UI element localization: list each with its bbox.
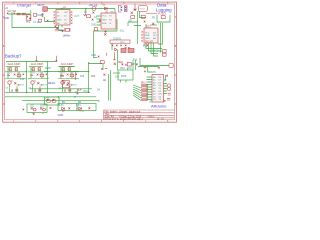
- svg-text:Charger: Charger: [17, 3, 32, 8]
- svg-text:GND: GND: [91, 55, 96, 57]
- svg-text:GND: GND: [37, 15, 42, 17]
- svg-text:o o o: o o o: [140, 9, 146, 11]
- svg-text:Rev:: Rev:: [150, 116, 155, 119]
- svg-text:NiMH: NiMH: [45, 68, 51, 70]
- svg-text:3V3: 3V3: [115, 76, 120, 78]
- svg-text:R20: R20: [91, 76, 96, 78]
- svg-text:16MHz: 16MHz: [63, 34, 72, 37]
- svg-text:SW1: SW1: [120, 68, 126, 70]
- svg-text:VCC: VCC: [102, 16, 107, 18]
- svg-text:RN1: RN1: [141, 82, 146, 84]
- svg-text:GND: GND: [4, 18, 9, 20]
- svg-text:SDA: SDA: [145, 34, 150, 37]
- svg-text:GND: GND: [102, 19, 107, 21]
- svg-text:Id: 1/1: Id: 1/1: [157, 118, 165, 121]
- svg-text:R16: R16: [60, 76, 65, 78]
- svg-text:CONN1: CONN1: [113, 38, 122, 40]
- svg-text:LD1: LD1: [30, 105, 35, 107]
- svg-text:VCC: VCC: [145, 32, 150, 34]
- svg-text:VIN: VIN: [152, 72, 156, 74]
- svg-text:SCL: SCL: [120, 30, 125, 32]
- svg-text:SD: SD: [129, 21, 133, 23]
- svg-text:File: battery_charger_logger.s: File: battery_charger_logger.sch: [105, 110, 141, 113]
- svg-text:VC: VC: [64, 19, 67, 21]
- svg-text:MEAS: MEAS: [48, 82, 55, 85]
- svg-text:GND: GND: [59, 29, 64, 31]
- svg-text:R10: R10: [133, 59, 138, 61]
- svg-text:+BATT: +BATT: [37, 4, 45, 7]
- svg-text:GN: GN: [159, 94, 163, 96]
- svg-text:TX: TX: [143, 47, 146, 49]
- svg-text:C1 10u: C1 10u: [33, 22, 41, 24]
- svg-text:PWR: PWR: [121, 76, 127, 78]
- svg-text:R15: R15: [80, 76, 85, 78]
- svg-text:R12: R12: [20, 79, 25, 81]
- svg-text:1.5V: 1.5V: [59, 105, 64, 107]
- svg-text:OUT: OUT: [64, 12, 69, 14]
- svg-text:Backup?: Backup?: [5, 54, 22, 59]
- svg-text:1.5V: 1.5V: [76, 105, 81, 107]
- svg-text:SQ: SQ: [153, 32, 156, 34]
- svg-text:AT2313: AT2313: [158, 13, 167, 16]
- svg-text:GND: GND: [58, 114, 64, 117]
- svg-text:SER: SER: [118, 62, 123, 64]
- svg-text:AD: AD: [57, 22, 60, 25]
- svg-text:TP1: TP1: [26, 22, 31, 24]
- svg-text:DS1307: DS1307: [145, 41, 154, 43]
- svg-text:ON: ON: [128, 68, 132, 70]
- svg-text:LD2: LD2: [40, 105, 45, 107]
- svg-text:ARduino: ARduino: [151, 104, 167, 109]
- svg-text:D14: D14: [84, 91, 89, 93]
- svg-text:SDA: SDA: [120, 41, 125, 44]
- svg-text:VC: VC: [111, 12, 115, 14]
- svg-text:KiCad E.D.A. kicad (2014-01-2: KiCad E.D.A. kicad (2014-01-24)-1: [105, 118, 144, 121]
- svg-text:GND: GND: [57, 19, 62, 21]
- svg-text:+5V reg: +5V reg: [89, 4, 98, 7]
- svg-text:RTC: RTC: [146, 26, 151, 28]
- svg-text:OUT: OUT: [74, 16, 79, 18]
- svg-text:SDA: SDA: [102, 22, 107, 25]
- svg-text:C8 C9: C8 C9: [152, 51, 159, 53]
- svg-text:GND: GND: [145, 38, 150, 40]
- svg-text:GND: GND: [91, 24, 96, 26]
